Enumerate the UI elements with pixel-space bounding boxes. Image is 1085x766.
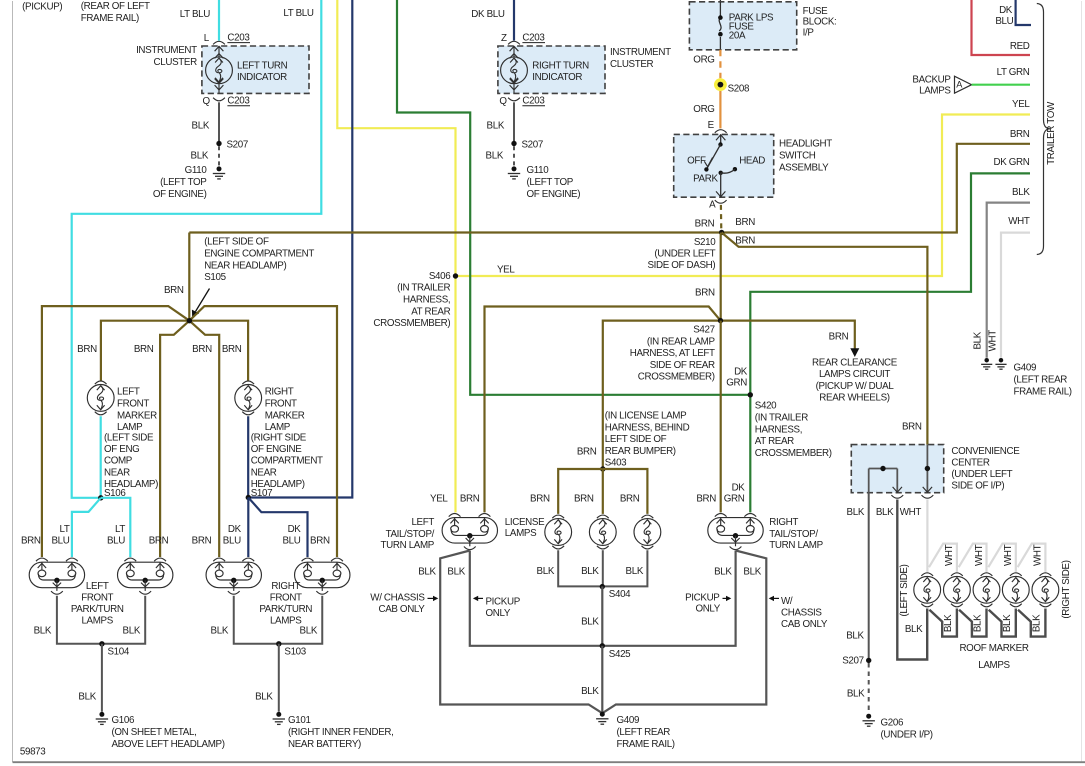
lamp LEFT TAIL/STOP/TURN LAMP — [442, 518, 497, 544]
svg-text:Q: Q — [499, 96, 507, 107]
svg-text:WHT: WHT — [944, 544, 955, 566]
wire BRN S427 to rear clearance lamps circuit — [721, 321, 855, 349]
ground G110 (left) — [213, 166, 225, 179]
svg-text:(RIGHT SIDE: (RIGHT SIDE — [251, 432, 307, 443]
page border right — [1081, 1, 1083, 762]
splice S104 — [99, 641, 104, 646]
switch wiper arc to HEAD — [721, 169, 735, 173]
wire DK BLU marker lamp to S107 — [247, 416, 249, 497]
svg-text:SIDE OF DASH): SIDE OF DASH) — [647, 260, 715, 271]
svg-text:FRONT: FRONT — [117, 398, 149, 409]
svg-text:BRN: BRN — [695, 288, 715, 299]
svg-text:Z: Z — [501, 33, 507, 44]
svg-text:LEFT: LEFT — [86, 581, 109, 592]
lamp ROOF MARKER LAMP 4 — [1010, 573, 1022, 576]
svg-text:S420: S420 — [755, 401, 777, 412]
svg-text:(LEFT SIDE OF: (LEFT SIDE OF — [204, 237, 269, 248]
wire DK BLU from top edge to connector C203 pin Z — [513, 0, 515, 41]
svg-text:(ON SHEET METAL,: (ON SHEET METAL, — [112, 727, 197, 738]
svg-text:OF ENGINE: OF ENGINE — [251, 444, 303, 455]
svg-text:S104: S104 — [108, 647, 130, 658]
svg-text:CAB ONLY: CAB ONLY — [378, 604, 425, 615]
lamp ROOF MARKER LAMP 1 — [921, 573, 933, 576]
svg-text:BLK: BLK — [943, 614, 954, 632]
svg-text:TURN LAMP: TURN LAMP — [381, 540, 435, 551]
label W/ CHASSIS CAB ONLY with arrow (right) — [773, 597, 780, 599]
svg-text:INSTRUMENT: INSTRUMENT — [610, 47, 671, 58]
svg-text:BLK: BLK — [34, 626, 52, 637]
lamp LEFT FRONT PARK/TURN LAMP B — [118, 562, 173, 588]
splice S420 — [748, 392, 753, 397]
svg-text:MARKER: MARKER — [117, 410, 157, 421]
svg-text:PICKUP: PICKUP — [685, 592, 720, 603]
splice S404 — [600, 584, 605, 589]
lamp LEFT TURN INDICATOR — [206, 57, 233, 84]
svg-text:AT REAR: AT REAR — [411, 306, 450, 317]
svg-text:E: E — [708, 120, 715, 131]
splice S207 (right) — [511, 141, 516, 146]
wire DK BLU from top edge down to S107 — [248, 0, 352, 498]
svg-text:BLK: BLK — [846, 631, 864, 642]
svg-text:HARNESS,: HARNESS, — [403, 294, 450, 305]
svg-text:CONVENIENCE: CONVENIENCE — [951, 446, 1020, 457]
svg-text:BLK: BLK — [905, 624, 923, 635]
wire WHT roof marker lamp 3 to lamp 4 — [988, 544, 1016, 572]
svg-text:SWITCH: SWITCH — [779, 150, 816, 161]
wire YEL from S406 to trailer tow — [456, 115, 1031, 277]
svg-text:DK: DK — [734, 366, 748, 377]
svg-text:G409: G409 — [617, 715, 640, 726]
wire BRN from S427 to right tail lamp — [720, 321, 722, 513]
svg-text:BLK: BLK — [211, 626, 229, 637]
wire BRN S105 to left front marker lamp — [101, 321, 189, 381]
svg-text:(IN TRAILER: (IN TRAILER — [397, 283, 450, 294]
lamp RIGHT FRONT MARKER LAMP — [242, 381, 254, 384]
svg-text:WHT: WHT — [1003, 544, 1014, 566]
splice S107 — [246, 495, 251, 500]
svg-text:BLK: BLK — [847, 507, 865, 518]
svg-text:BRN: BRN — [222, 344, 242, 355]
svg-text:RIGHT: RIGHT — [769, 517, 798, 528]
svg-text:(UNDER LEFT: (UNDER LEFT — [654, 248, 715, 259]
wire BLK convenience center to roof marker lamp 1 — [897, 500, 927, 660]
wire BLK license lamp 3 to S404 — [602, 550, 647, 586]
wire BLK convenience center to splice S207 — [868, 493, 870, 661]
svg-text:LT BLU: LT BLU — [283, 8, 313, 19]
lamp RIGHT FRONT PARK/TURN LAMP B — [295, 562, 350, 588]
wire BLK left tail lamp to G409 (w/ chassis cab) — [440, 551, 602, 714]
svg-text:MARKER: MARKER — [265, 410, 305, 421]
svg-text:CROSSMEMBER): CROSSMEMBER) — [755, 448, 832, 459]
svg-text:RED: RED — [1010, 41, 1030, 52]
wire BLK S404 to S425 — [601, 586, 603, 645]
headlight switch assembly box — [674, 134, 774, 197]
connector pin A (female half) — [715, 200, 727, 203]
wire BRN inside convenience center (from S210 feed) — [926, 445, 928, 493]
svg-text:LAMPS: LAMPS — [978, 660, 1010, 671]
contact HEAD — [733, 167, 737, 171]
svg-text:C203: C203 — [522, 32, 545, 43]
svg-text:S103: S103 — [284, 647, 306, 658]
svg-text:REAR CLEARANCE: REAR CLEARANCE — [812, 357, 898, 368]
svg-text:S425: S425 — [609, 649, 631, 660]
lamp RIGHT TURN INDICATOR — [501, 57, 528, 84]
ground G409 (rear center) — [596, 712, 608, 725]
svg-text:REAR WHEELS): REAR WHEELS) — [819, 393, 889, 404]
svg-text:COMPARTMENT: COMPARTMENT — [251, 456, 323, 467]
wire ORG from fuse to splice S208 (dashed) — [719, 50, 721, 78]
svg-text:Q: Q — [203, 96, 211, 107]
svg-text:BLU: BLU — [107, 535, 125, 546]
wire BRN S105 to left front park/turn lamp B — [160, 321, 189, 557]
svg-text:GRN: GRN — [724, 494, 745, 505]
svg-text:(IN TRAILER: (IN TRAILER — [755, 412, 808, 423]
splice S208 with highlight — [714, 78, 727, 91]
splice S105 — [187, 318, 192, 323]
svg-text:S210: S210 — [694, 237, 716, 248]
wire LT BLU from S106 to left park/turn lamp A — [72, 498, 101, 557]
ground G409 (WHT) — [995, 358, 1006, 369]
headlight switch lever (to PARK) — [706, 145, 720, 170]
svg-text:BRN: BRN — [21, 535, 41, 546]
svg-text:HEAD: HEAD — [739, 155, 765, 166]
wire BLK S207 to ground G206 (dashed) — [868, 663, 870, 714]
switch common contact — [719, 171, 723, 175]
wire from top edge into fuse block — [719, 0, 721, 2]
svg-text:BLK: BLK — [876, 507, 894, 518]
svg-text:(RIGHT INNER FENDER,: (RIGHT INNER FENDER, — [288, 727, 394, 738]
svg-text:BLK: BLK — [581, 686, 599, 697]
svg-text:S106: S106 — [104, 488, 126, 499]
wire BRN bus from S105 riser to S210 to trailer tow — [189, 144, 1030, 233]
svg-text:BLK: BLK — [418, 566, 436, 577]
wire BLK from C203 Q to splice S207 — [218, 102, 220, 143]
svg-text:LICENSE: LICENSE — [505, 517, 545, 528]
svg-text:CLUSTER: CLUSTER — [154, 57, 198, 68]
svg-text:BRN: BRN — [134, 344, 154, 355]
svg-text:YEL: YEL — [497, 264, 515, 275]
svg-text:ORG: ORG — [693, 104, 714, 115]
ground G106 — [96, 712, 108, 725]
svg-text:BRN: BRN — [149, 535, 169, 546]
splice S427 — [718, 318, 723, 323]
svg-text:(IN REAR LAMP: (IN REAR LAMP — [647, 336, 716, 347]
svg-text:BRN: BRN — [695, 218, 715, 229]
wire out of right turn indicator lamp — [513, 84, 515, 93]
wire BRN riser from bus down to splice S105 — [188, 233, 190, 321]
svg-text:TAIL/STOP/: TAIL/STOP/ — [386, 529, 435, 540]
svg-text:BRN: BRN — [696, 494, 716, 505]
svg-text:BLU: BLU — [995, 16, 1013, 27]
svg-text:S207: S207 — [522, 140, 543, 151]
svg-text:(LEFT SIDE): (LEFT SIDE) — [899, 564, 910, 616]
svg-text:HARNESS, BEHIND: HARNESS, BEHIND — [605, 422, 690, 433]
svg-text:ASSEMBLY: ASSEMBLY — [779, 162, 829, 173]
wire RED from top edge to trailer tow connector — [972, 0, 1031, 55]
headlight switch: input wire with arrow — [720, 134, 722, 144]
svg-text:G110: G110 — [527, 165, 550, 176]
svg-text:S207: S207 — [227, 140, 248, 151]
svg-text:LT BLU: LT BLU — [180, 9, 210, 20]
wire BLK license lamp 1 to S404 — [558, 550, 602, 586]
wire LT BLU from top edge to connector C203 pin L — [218, 0, 220, 41]
wire DK BLU from top edge to trailer tow connector — [1016, 0, 1031, 25]
svg-text:WHT: WHT — [974, 544, 985, 566]
svg-text:BRN: BRN — [192, 344, 212, 355]
svg-text:WHT: WHT — [900, 507, 922, 518]
lamp ROOF MARKER LAMP 2 — [951, 573, 963, 576]
svg-text:BRN: BRN — [829, 332, 849, 343]
wire BRN dashed from pin A to splice S210 — [720, 205, 723, 232]
wire into right turn indicator lamp — [513, 46, 515, 57]
svg-text:RIGHT: RIGHT — [265, 387, 294, 398]
svg-text:ABOVE LEFT HEADLAMP): ABOVE LEFT HEADLAMP) — [112, 739, 225, 750]
svg-text:BLK: BLK — [972, 331, 983, 349]
wire BRN S403 to license lamp 2 — [602, 469, 604, 514]
svg-text:BRN: BRN — [310, 535, 330, 546]
svg-text:OF ENGINE): OF ENGINE) — [527, 189, 581, 200]
wire LT BLU from top edge across to left side and down to S106 — [72, 0, 322, 498]
symbol A: backup lamps circuit reference triangle — [955, 76, 972, 93]
wire BLK S103 to ground G101 — [278, 644, 280, 712]
wire WHT roof marker lamp 2 to lamp 3 — [959, 544, 987, 572]
wire BRN from S210 to convenience center — [722, 233, 928, 445]
headlight switch output wire with arrow — [720, 173, 722, 197]
svg-text:(IN LICENSE LAMP: (IN LICENSE LAMP — [605, 410, 687, 421]
svg-text:AT REAR: AT REAR — [755, 436, 794, 447]
svg-text:BLK: BLK — [714, 566, 732, 577]
wire BLK right tail lamp to G409 (w/ chassis cab) — [602, 551, 766, 714]
wire BLK left park/turn lamp A to S104 — [57, 596, 102, 644]
wire DK BLU from S107 to right park/turn lamp A — [247, 498, 249, 558]
wire BLK roof marker lamp 1 to lamp 2 — [929, 609, 957, 637]
svg-text:W/: W/ — [781, 596, 793, 607]
svg-text:BLK: BLK — [581, 566, 599, 577]
svg-text:(REAR OF LEFT: (REAR OF LEFT — [81, 1, 150, 12]
svg-text:LAMP: LAMP — [117, 422, 143, 433]
svg-text:W/ CHASSIS: W/ CHASSIS — [370, 592, 425, 603]
lamp ROOF MARKER LAMP 3 — [981, 573, 993, 576]
svg-text:BLK: BLK — [486, 151, 504, 162]
svg-text:S107: S107 — [251, 488, 272, 499]
svg-text:NEAR BATTERY): NEAR BATTERY) — [288, 739, 361, 750]
svg-text:S403: S403 — [605, 458, 627, 469]
lamp RIGHT FRONT PARK/TURN LAMP A — [206, 562, 261, 588]
svg-text:BLK: BLK — [1012, 187, 1030, 198]
convenience center box — [851, 445, 943, 493]
svg-text:SIDE OF I/P): SIDE OF I/P) — [951, 481, 1004, 492]
wire BLK roof marker lamp 3 to lamp 4 — [989, 609, 1016, 637]
wire BLK right park/turn lamp A to S103 — [234, 596, 279, 644]
wire LT BLU from S106 to left park/turn lamp B — [101, 498, 131, 557]
splice S207 (left) — [216, 141, 221, 146]
svg-text:(UNDER LEFT: (UNDER LEFT — [951, 469, 1012, 480]
svg-text:OF ENGINE): OF ENGINE) — [153, 189, 207, 200]
svg-text:HEADLIGHT: HEADLIGHT — [779, 139, 832, 150]
wire WHT from trailer tow to ground G409 — [1001, 233, 1030, 358]
svg-text:REAR BUMPER): REAR BUMPER) — [605, 446, 676, 457]
svg-text:DK: DK — [999, 5, 1013, 16]
wire BRN S427 to license lamps splice S403 — [603, 321, 721, 469]
lamp RIGHT TAIL/STOP/TURN LAMP — [708, 518, 763, 544]
svg-text:LEFT: LEFT — [411, 517, 434, 528]
svg-text:DK: DK — [228, 524, 242, 535]
svg-text:A: A — [709, 200, 716, 211]
svg-text:PARK: PARK — [693, 173, 718, 184]
svg-text:BLK: BLK — [847, 688, 865, 699]
svg-text:ONLY: ONLY — [486, 608, 511, 619]
svg-text:CROSSMEMBER): CROSSMEMBER) — [373, 318, 450, 329]
wire BRN S403 to license lamp 1 — [558, 469, 603, 514]
svg-text:BRN: BRN — [530, 494, 550, 505]
svg-text:S427: S427 — [693, 324, 714, 335]
svg-text:(RIGHT SIDE): (RIGHT SIDE) — [1061, 560, 1072, 618]
wire BLK S425 to ground G409 — [601, 646, 603, 713]
svg-text:BRN: BRN — [1010, 129, 1030, 140]
splice S103 — [276, 641, 281, 646]
ground G409 (BLK) — [981, 358, 992, 369]
svg-text:FRAME RAIL): FRAME RAIL) — [1014, 387, 1072, 398]
convenience center BLK output 2 with arrow — [896, 469, 898, 493]
page border left — [12, 1, 14, 762]
svg-text:I/P: I/P — [803, 27, 815, 38]
lamp ROOF MARKER LAMP 5 — [1040, 573, 1052, 576]
svg-text:LAMPS CIRCUIT: LAMPS CIRCUIT — [819, 369, 890, 380]
svg-text:S105: S105 — [204, 272, 226, 283]
wire BRN S105 to right front marker lamp — [189, 321, 248, 381]
svg-text:LAMPS: LAMPS — [505, 528, 537, 539]
instrument cluster box (left turn indicator) — [202, 46, 309, 93]
wire BRN from S210 down to splice S427 — [720, 233, 722, 321]
svg-text:BLK: BLK — [743, 566, 761, 577]
connector C203 pin Q (female half) — [213, 98, 225, 101]
svg-text:BLU: BLU — [282, 535, 300, 546]
wire BLK roof marker lamp 2 to lamp 3 — [959, 609, 986, 637]
svg-text:LAMPS: LAMPS — [270, 615, 302, 626]
svg-text:G106: G106 — [112, 715, 135, 726]
svg-text:(LEFT SIDE: (LEFT SIDE — [104, 432, 154, 443]
convenience center internal node bar — [869, 468, 898, 470]
svg-text:BRN: BRN — [460, 494, 480, 505]
svg-text:ONLY: ONLY — [695, 604, 720, 615]
svg-text:YEL: YEL — [430, 494, 448, 505]
wire WHT roof marker lamp 4 to lamp 5 — [1018, 544, 1046, 572]
svg-text:COMP: COMP — [104, 456, 133, 467]
svg-text:(PICKUP): (PICKUP) — [22, 1, 62, 12]
svg-text:BLOCK:: BLOCK: — [803, 17, 837, 28]
splice S210 — [719, 230, 724, 235]
wire BLK left park/turn lamp B to S104 — [102, 596, 145, 644]
svg-text:BRN: BRN — [192, 535, 212, 546]
svg-text:(PICKUP W/ DUAL: (PICKUP W/ DUAL — [816, 381, 895, 392]
trailer tow connector brace — [1037, 4, 1050, 255]
svg-text:OFF: OFF — [687, 155, 706, 166]
connector C203 pin Z (female half) — [508, 41, 520, 44]
svg-text:LT GRN: LT GRN — [997, 67, 1030, 78]
svg-text:FRONT: FRONT — [270, 592, 302, 603]
svg-text:BLK: BLK — [581, 617, 599, 628]
svg-text:CLUSTER: CLUSTER — [610, 59, 654, 70]
splice S403 — [600, 466, 605, 471]
svg-text:BLK: BLK — [447, 566, 465, 577]
wire BRN rear bus to left tail lamp and S427 — [485, 307, 721, 513]
svg-text:(LEFT TOP: (LEFT TOP — [160, 177, 207, 188]
svg-text:G206: G206 — [881, 718, 904, 729]
svg-text:(LEFT TOP: (LEFT TOP — [527, 177, 574, 188]
svg-text:ORG: ORG — [693, 54, 714, 65]
svg-text:BRN: BRN — [902, 422, 922, 433]
wire BRN S105 to right front park/turn lamp B (right branch) — [189, 306, 337, 557]
wire into left turn indicator lamp — [218, 46, 220, 57]
svg-text:HARNESS,: HARNESS, — [755, 424, 802, 435]
svg-text:ROOF MARKER: ROOF MARKER — [959, 643, 1028, 654]
wire YEL from top edge down to left tail lamp via S406 — [337, 0, 455, 512]
wire BLK from trailer tow to ground G409 — [987, 203, 1030, 358]
svg-text:BRN: BRN — [77, 344, 97, 355]
wire out of left turn indicator lamp — [218, 84, 220, 93]
svg-text:CHASSIS: CHASSIS — [781, 608, 822, 619]
wire BLK S104 to ground G106 — [101, 644, 103, 712]
ground G206 — [863, 714, 875, 727]
svg-text:INDICATOR: INDICATOR — [532, 72, 582, 83]
svg-text:YEL: YEL — [1012, 99, 1030, 110]
svg-text:BLK: BLK — [1032, 614, 1043, 632]
svg-text:BRN: BRN — [620, 494, 640, 505]
splice S406 — [453, 273, 458, 278]
svg-text:C203: C203 — [522, 95, 545, 106]
svg-text:20A: 20A — [729, 30, 746, 41]
svg-text:NEAR HEADLAMP): NEAR HEADLAMP) — [204, 260, 286, 271]
svg-text:FUSE: FUSE — [803, 6, 829, 17]
contact PARK — [704, 167, 708, 171]
svg-text:CROSSMEMBER): CROSSMEMBER) — [638, 372, 715, 383]
svg-text:WHT: WHT — [987, 330, 998, 352]
svg-text:C203: C203 — [227, 32, 250, 43]
svg-text:C203: C203 — [227, 95, 250, 106]
svg-text:BLU: BLU — [223, 535, 241, 546]
svg-text:LAMPS: LAMPS — [81, 615, 113, 626]
svg-text:G110: G110 — [185, 165, 208, 176]
svg-text:FRAME RAIL): FRAME RAIL) — [81, 13, 139, 24]
svg-text:S404: S404 — [609, 589, 631, 600]
svg-text:FRONT: FRONT — [81, 592, 113, 603]
svg-text:CENTER: CENTER — [951, 458, 989, 469]
fuse block I/P box — [689, 2, 796, 50]
splice S207 (convenience center ground) — [866, 658, 871, 663]
wire DK GRN from S420 to trailer tow — [750, 173, 1030, 394]
svg-text:BLK: BLK — [626, 566, 644, 577]
svg-text:LEFT SIDE OF: LEFT SIDE OF — [605, 434, 667, 445]
svg-text:LEFT TURN: LEFT TURN — [237, 60, 288, 71]
label PICKUP ONLY with arrow (left) — [476, 597, 483, 599]
connector pin E (female half) — [715, 130, 727, 133]
svg-text:TURN LAMP: TURN LAMP — [769, 540, 823, 551]
ground G101 — [273, 712, 285, 725]
lamp LICENSE LAMP 2 — [597, 515, 609, 518]
svg-text:G101: G101 — [288, 715, 311, 726]
wire BLK right tail lamp to S425 (pickup only) — [602, 551, 735, 646]
lamp LEFT FRONT PARK/TURN LAMP A — [29, 562, 84, 588]
svg-text:BRN: BRN — [577, 447, 597, 458]
splice S425 — [600, 643, 605, 648]
svg-text:DK GRN: DK GRN — [993, 157, 1029, 168]
svg-text:(LEFT REAR: (LEFT REAR — [617, 727, 671, 738]
connector C203 pin L (female half) — [213, 41, 225, 44]
S105 pointer arrow — [196, 289, 210, 312]
svg-text:BLK: BLK — [537, 566, 555, 577]
wire ORG from S208 to headlight switch pin E — [719, 91, 721, 128]
svg-text:G409: G409 — [1014, 363, 1037, 374]
